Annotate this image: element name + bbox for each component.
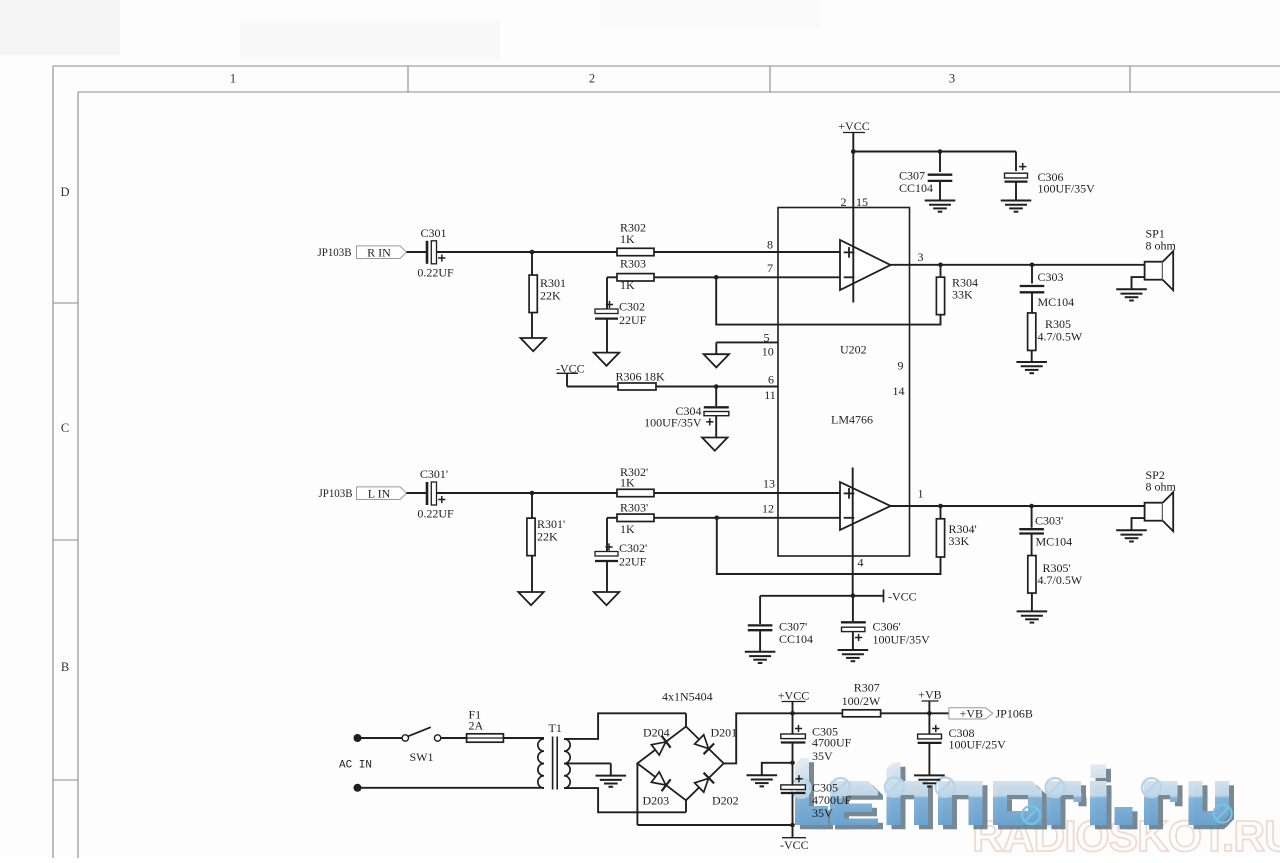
svg-text:11: 11: [764, 388, 776, 402]
svg-text:3: 3: [949, 72, 955, 86]
svg-text:MC104: MC104: [1036, 535, 1073, 549]
svg-text:L IN: L IN: [368, 486, 391, 500]
svg-text:JP103B: JP103B: [319, 486, 353, 500]
svg-text:-VCC: -VCC: [888, 589, 917, 603]
svg-text:C302: C302: [619, 300, 645, 314]
svg-text:22UF: 22UF: [619, 555, 647, 569]
svg-text:35V: 35V: [812, 749, 833, 763]
svg-text:35V: 35V: [812, 806, 833, 820]
svg-text:1K: 1K: [620, 522, 635, 536]
svg-text:6: 6: [768, 373, 774, 387]
svg-text:13: 13: [763, 476, 775, 490]
svg-text:4.7/0.5W: 4.7/0.5W: [1038, 573, 1083, 587]
svg-text:AC IN: AC IN: [339, 760, 372, 772]
svg-text:D: D: [60, 185, 69, 199]
svg-text:0.22UF: 0.22UF: [417, 266, 454, 280]
svg-text:8 ohm: 8 ohm: [1146, 480, 1177, 494]
svg-text:22K: 22K: [537, 530, 558, 544]
svg-text:JP103B: JP103B: [318, 245, 352, 259]
svg-text:CC104: CC104: [779, 632, 813, 646]
svg-text:4700UF: 4700UF: [812, 736, 852, 750]
svg-text:D203: D203: [643, 793, 670, 807]
svg-text:9: 9: [898, 359, 904, 373]
svg-text:C301': C301': [420, 467, 448, 481]
svg-text:8 ohm: 8 ohm: [1146, 239, 1177, 253]
svg-text:R306: R306: [616, 370, 642, 384]
svg-text:1K: 1K: [620, 476, 635, 490]
svg-text:+VB: +VB: [960, 706, 983, 720]
svg-text:100/2W: 100/2W: [842, 694, 881, 708]
svg-text:0.22UF: 0.22UF: [417, 507, 454, 521]
svg-text:1: 1: [918, 487, 924, 501]
svg-text:4700UF: 4700UF: [812, 793, 852, 807]
svg-text:U202: U202: [840, 343, 867, 357]
svg-text:100UF/35V: 100UF/35V: [873, 633, 931, 647]
svg-text:R303': R303': [620, 501, 648, 515]
svg-text:+VCC: +VCC: [778, 689, 809, 703]
svg-text:C306': C306': [873, 620, 901, 634]
svg-text:D202: D202: [712, 793, 739, 807]
svg-text:7: 7: [767, 261, 773, 275]
svg-text:CC104: CC104: [899, 181, 933, 195]
svg-text:C302': C302': [619, 541, 647, 555]
svg-text:10: 10: [762, 345, 774, 359]
svg-text:D201: D201: [711, 726, 738, 740]
svg-text:22UF: 22UF: [619, 313, 647, 327]
svg-text:4x1N5404: 4x1N5404: [662, 690, 713, 704]
svg-text:R307: R307: [854, 681, 880, 695]
svg-text:3: 3: [918, 250, 924, 264]
svg-text:4.7/0.5W: 4.7/0.5W: [1038, 330, 1083, 344]
svg-text:C303: C303: [1038, 270, 1064, 284]
svg-text:+VB: +VB: [918, 688, 941, 702]
svg-text:33K: 33K: [952, 288, 973, 302]
svg-text:12: 12: [762, 501, 774, 515]
svg-text:5: 5: [764, 331, 770, 345]
svg-text:15: 15: [856, 195, 868, 209]
svg-text:D204: D204: [643, 726, 670, 740]
svg-text:C301: C301: [420, 226, 446, 240]
svg-text:18K: 18K: [644, 370, 665, 384]
svg-text:SW1: SW1: [410, 750, 434, 764]
svg-text:C303': C303': [1035, 513, 1063, 527]
svg-text:4: 4: [858, 556, 864, 570]
svg-text:R303: R303: [620, 257, 646, 271]
svg-text:C: C: [61, 421, 69, 435]
svg-text:1K: 1K: [620, 278, 635, 292]
svg-text:2: 2: [841, 195, 847, 209]
svg-text:2: 2: [589, 72, 595, 86]
svg-text:1: 1: [230, 72, 236, 86]
svg-text:-VCC: -VCC: [780, 838, 809, 852]
svg-text:2A: 2A: [469, 719, 484, 733]
svg-text:100UF/25V: 100UF/25V: [949, 737, 1007, 751]
svg-text:LM4766: LM4766: [831, 413, 873, 427]
svg-text:22K: 22K: [540, 289, 561, 303]
svg-text:14: 14: [893, 384, 905, 398]
svg-text:100UF/35V: 100UF/35V: [644, 415, 702, 429]
svg-text:33K: 33K: [949, 534, 970, 548]
svg-text:T1: T1: [549, 721, 562, 735]
svg-text:+VCC: +VCC: [838, 119, 869, 133]
svg-text:JP106B: JP106B: [996, 707, 1033, 721]
svg-text:8: 8: [767, 238, 773, 252]
svg-text:100UF/35V: 100UF/35V: [1038, 182, 1096, 196]
svg-text:R IN: R IN: [367, 245, 391, 259]
svg-text:B: B: [61, 660, 69, 674]
svg-text:1K: 1K: [620, 232, 635, 246]
svg-text:MC104: MC104: [1038, 295, 1075, 309]
